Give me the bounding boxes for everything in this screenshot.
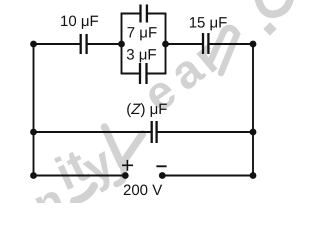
- wire left vertical: [33, 44, 35, 176]
- node top-right: [250, 41, 257, 48]
- node bottom-left: [30, 172, 37, 179]
- node parallel right: [162, 41, 169, 48]
- wire top branch mid segment: [87, 43, 122, 45]
- wire bottom branch: [34, 175, 126, 177]
- wire right vertical: [252, 44, 254, 176]
- parallel loop left vertical: [121, 14, 123, 74]
- parallel loop right vertical: [165, 14, 167, 74]
- watermark letters: [26, 30, 231, 232]
- capacitor C1 10uF plates: [80, 34, 82, 54]
- svg-text:15 μF: 15 μF: [189, 15, 228, 32]
- node top-left: [30, 41, 37, 48]
- node bottom-right: [250, 172, 257, 179]
- capacitor 15uF plates: [202, 33, 204, 54]
- wire top branch left segment: [34, 43, 81, 45]
- wire top branch right segment: [166, 43, 204, 45]
- label minus: [156, 165, 166, 167]
- capacitor Z plates: [151, 121, 153, 143]
- capacitor 3uF plates: [139, 63, 141, 84]
- node mid-left: [30, 129, 37, 136]
- watermark strokes: [74, 28, 237, 201]
- svg-text:200 V: 200 V: [123, 182, 162, 199]
- wire middle branch: [34, 131, 152, 133]
- svg-text:(Z) μF: (Z) μF: [126, 101, 167, 118]
- capacitor 7uF plates: [139, 5, 141, 23]
- label plus: [122, 160, 133, 171]
- svg-text:3 μF: 3 μF: [126, 46, 156, 63]
- battery terminal -: [159, 172, 166, 179]
- watermark dot: [263, 22, 276, 35]
- node mid-right: [250, 129, 257, 136]
- svg-text:10 μF: 10 μF: [60, 13, 99, 30]
- wire top branch far right segment: [208, 43, 253, 45]
- battery terminal +: [122, 172, 129, 179]
- watermark c: [258, 0, 291, 14]
- parallel loop top wire: [121, 13, 141, 15]
- node parallel left: [118, 41, 125, 48]
- parallel loop bottom wire: [121, 73, 140, 75]
- svg-text:7 μF: 7 μF: [127, 25, 157, 42]
